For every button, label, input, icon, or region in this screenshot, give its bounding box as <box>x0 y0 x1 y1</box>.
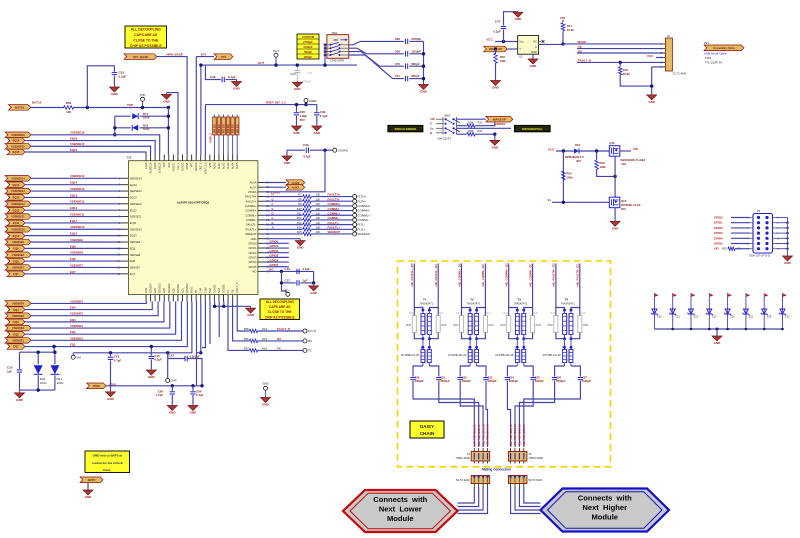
note ZZ1 assembly <box>704 41 744 64</box>
svg-text:GND: GND <box>16 398 24 402</box>
note: Connects with Next Lower Module <box>343 490 458 532</box>
net name VSENSE11 <box>70 212 85 216</box>
svg-text:GND: GND <box>247 313 255 317</box>
net name daisy J5 pin4 <box>522 424 526 447</box>
wire SW2 to WAKEUP <box>457 118 486 120</box>
transformer T2 764242471 <box>466 298 480 341</box>
svg-text:GND: GND <box>148 375 156 379</box>
svg-text:C21: C21 <box>440 375 445 379</box>
net name VSENSE8 <box>70 251 83 255</box>
net name GPIO3 <box>269 254 278 258</box>
svg-text:VSENSE7: VSENSE7 <box>70 263 83 267</box>
wire R25 to P1 <box>735 248 750 250</box>
wire daisy to J4 pin3 <box>460 381 483 447</box>
svg-text:C: C <box>430 122 432 126</box>
resistor R42 DNP <box>500 312 510 333</box>
net name EQ10 <box>70 232 78 236</box>
svg-text:AUX5: AUX5 <box>236 162 239 169</box>
transformer T4 764242471 <box>561 298 575 341</box>
svg-text:+HL_COMML-_DC: +HL_COMML-_DC <box>481 264 485 287</box>
svg-text:FLTL+: FLTL+ <box>358 227 367 231</box>
node VIO testpoint <box>284 288 290 296</box>
svg-text:EQ11: EQ11 <box>130 221 137 225</box>
wire clamp top rail <box>20 351 55 353</box>
svg-text:1µF: 1µF <box>303 279 308 283</box>
net label VSENSE16 <box>5 132 31 138</box>
wire cap gnd bus <box>423 41 425 84</box>
svg-text:10.0k: 10.0k <box>567 28 574 32</box>
wire GPIO1 <box>265 247 289 249</box>
svg-text:USB Serial Cable: USB Serial Cable <box>704 51 727 55</box>
svg-text:BAT16: BAT16 <box>32 101 42 105</box>
wire to R23 <box>596 151 598 160</box>
wire EQ8 <box>25 260 122 262</box>
capacitor C33 0.1uF <box>112 71 127 79</box>
junction <box>191 384 194 387</box>
node GND testpoint <box>262 382 268 398</box>
resistor R7 100 <box>298 193 320 199</box>
wire daisy to J5 pin2 <box>515 381 533 447</box>
transistor Q16 SI2319CDS-T1-GE3 -40V <box>609 141 645 166</box>
wire D18 cathode <box>115 127 131 129</box>
svg-text:Q19: Q19 <box>621 199 627 203</box>
svg-text:+HL_COMML+_DC: +HL_COMML+_DC <box>457 263 461 287</box>
resistor R43 DNP <box>531 312 542 333</box>
svg-text:VSENSE14: VSENSE14 <box>11 177 25 181</box>
svg-text:1000pF: 1000pF <box>509 379 519 383</box>
note: GND tied to BAT0 <box>85 451 130 473</box>
resistor R40 DNP <box>453 312 463 333</box>
svg-text:GND: GND <box>530 64 538 68</box>
net name daisy J5 pin1 <box>509 424 513 447</box>
wire FAULTH- left <box>265 200 303 202</box>
svg-text:C: C <box>272 216 274 220</box>
diode D20 100V <box>34 365 47 385</box>
resistor R23 100k <box>595 160 606 169</box>
svg-text:C20: C20 <box>415 375 420 379</box>
wire VSENSE8 <box>31 254 122 256</box>
svg-text:CHS-04TA: CHS-04TA <box>330 59 344 63</box>
svg-text:764242471: 764242471 <box>561 301 575 305</box>
svg-text:WAKE: WAKE <box>577 40 586 44</box>
capacitor C24 1000pF <box>505 375 519 383</box>
svg-text:NPN_BASE: NPN_BASE <box>167 53 183 57</box>
svg-text:GPIO0: GPIO0 <box>248 241 256 245</box>
svg-text:Z21: Z21 <box>676 315 681 318</box>
wire EQ4 <box>25 301 152 309</box>
wire dnp right bottom <box>571 333 580 339</box>
wire zener bus <box>654 328 782 330</box>
wire FAULTL- down <box>429 264 438 311</box>
wire C38 gnd stub <box>286 150 288 155</box>
svg-text:C71: C71 <box>395 74 401 78</box>
net label EQ10 <box>7 233 25 239</box>
wire daisy to J5 pin1 <box>507 381 510 447</box>
capacitor C41 4.7uF <box>108 355 122 363</box>
svg-text:VSENSE12: VSENSE12 <box>11 202 25 206</box>
svg-text:D19: D19 <box>575 143 581 147</box>
svg-text:R42: R42 <box>503 312 508 315</box>
net name EQ16 <box>70 136 78 140</box>
junction <box>323 63 326 66</box>
svg-text:AUX3: AUX3 <box>227 162 230 169</box>
resistor R17 10.0k <box>561 23 574 32</box>
resistor R15 100 <box>297 230 321 236</box>
ground SW2 <box>490 140 500 150</box>
net name VSENSE7 <box>70 263 83 267</box>
net label EQ9 <box>7 246 25 252</box>
svg-text:GND: GND <box>784 261 792 265</box>
net label VSENSE8 <box>5 252 31 258</box>
wire VIO stub <box>562 20 564 22</box>
junction <box>595 149 598 152</box>
svg-text:VSENSE1: VSENSE1 <box>12 339 25 343</box>
svg-text:R13: R13 <box>297 221 302 225</box>
svg-text:GND: GND <box>262 382 268 386</box>
wire dnp left top <box>555 308 557 316</box>
svg-text:NC: NC <box>533 40 537 44</box>
capacitor C38 4.7uF <box>303 143 311 159</box>
svg-text:F: F <box>272 202 274 206</box>
zener Z27 <box>779 293 790 329</box>
zener Z24 <box>724 293 735 329</box>
svg-text:WAKEUP: WAKEUP <box>328 230 341 234</box>
svg-text:SW1: SW1 <box>332 31 339 35</box>
capacitor C64 0.1uF <box>190 389 203 397</box>
svg-text:Vs: Vs <box>430 126 434 130</box>
svg-text:DNP: DNP <box>536 323 542 327</box>
svg-text:VDIG: VDIG <box>191 287 194 293</box>
wire dnp left bottom <box>462 333 471 339</box>
switch SW1 CHS-04TA <box>324 31 349 63</box>
net name Vs <box>547 198 551 202</box>
svg-text:C23: C23 <box>488 375 493 379</box>
junction <box>323 149 326 152</box>
wire TX from U1 <box>228 301 249 350</box>
svg-text:40V: 40V <box>576 159 581 163</box>
svg-text:RX: RX <box>308 339 312 343</box>
wire J6 pin3 to lower module <box>458 487 484 510</box>
net name FAULT_N <box>277 327 290 331</box>
svg-text:0.1µF: 0.1µF <box>119 75 127 79</box>
resistor R9 100 <box>298 202 320 208</box>
svg-text:EQ11: EQ11 <box>70 219 77 223</box>
ground C38 <box>282 155 292 165</box>
svg-text:C42: C42 <box>169 354 175 358</box>
wire EQ15 <box>25 152 146 155</box>
svg-text:CHM: CHM <box>204 288 207 293</box>
svg-text:COMML-: COMML- <box>246 218 257 222</box>
svg-text:EQ4: EQ4 <box>13 308 19 312</box>
pin letter A <box>272 226 274 230</box>
svg-text:AUX1: AUX1 <box>218 162 221 169</box>
net name COMMH+ <box>328 202 341 206</box>
svg-text:GPIO5: GPIO5 <box>269 263 278 267</box>
wire C39 to gnd <box>316 116 318 125</box>
svg-text:VIO: VIO <box>560 16 566 20</box>
wire dnp right top <box>484 308 486 316</box>
wire dnp right bottom <box>524 333 533 339</box>
resistor R14 100 <box>297 226 321 232</box>
wire TX to testpoint <box>258 349 303 351</box>
svg-text:R12: R12 <box>297 216 302 220</box>
wire EQ16 <box>25 141 155 155</box>
capacitor C60 1.8uF 25V <box>294 110 308 122</box>
junction <box>53 351 56 354</box>
svg-text:R7: R7 <box>298 193 302 197</box>
net name VSENSE15 <box>70 142 85 146</box>
svg-text:VSENSE2: VSENSE2 <box>70 324 83 328</box>
wire GPIO0 to P1 <box>731 217 750 219</box>
wire dnp left bottom <box>414 333 423 339</box>
svg-text:J4: J4 <box>467 452 470 456</box>
wire VSENSE15 <box>31 146 151 154</box>
wire clamp left vertical <box>114 116 116 135</box>
svg-text:-40V: -40V <box>621 162 627 166</box>
wire C42 right riser <box>187 359 202 386</box>
resistor R35 49.9 <box>244 327 268 333</box>
capacitor C22 1000pF <box>458 375 472 383</box>
wire FAULTL+ left <box>265 228 303 230</box>
wire GPIO3 to P1 <box>731 232 750 234</box>
svg-text:EQ9: EQ9 <box>130 246 136 250</box>
resistor R50 100 <box>64 101 74 114</box>
wire C56 gnd <box>171 395 173 404</box>
wire VP1 <box>196 56 214 58</box>
svg-text:560pF: 560pF <box>304 50 312 54</box>
junction <box>274 63 277 66</box>
wire GPIO2 to P1 <box>731 227 750 229</box>
node COMMH+ <box>353 204 371 208</box>
svg-text:GPIO2: GPIO2 <box>714 226 723 230</box>
resistor R8 100 <box>298 197 320 203</box>
wire to R21 <box>457 125 467 127</box>
svg-text:Mating Connectors: Mating Connectors <box>482 468 511 472</box>
wire J7 pin1 to higher module <box>511 487 541 514</box>
svg-text:FAULT_N: FAULT_N <box>277 327 290 331</box>
wire GPIO2 <box>265 252 289 254</box>
net name EQ2 <box>70 330 76 334</box>
ground AGND <box>162 93 172 104</box>
svg-text:GPIO3: GPIO3 <box>714 231 723 235</box>
wire to C60 <box>296 105 298 112</box>
svg-text:EQ10: EQ10 <box>130 234 137 238</box>
net name GPIO4 <box>269 258 278 262</box>
svg-text:SENSE2: SENSE2 <box>168 283 171 293</box>
wire COMML+ left <box>265 214 303 216</box>
wire VREF_INT_2.5 <box>205 102 306 105</box>
resistor R11 100 <box>297 211 320 217</box>
svg-text:0.1µF: 0.1µF <box>228 75 236 79</box>
wire COMML- right <box>311 219 353 221</box>
svg-text:AUX0..5: AUX0..5 <box>209 133 213 143</box>
net label VSENSE15 <box>5 143 31 149</box>
net name TX <box>277 347 281 351</box>
net label VSENSE10 <box>5 226 31 232</box>
op-amp U1 bq76PL455ATPFCRQ1 body <box>127 156 258 295</box>
svg-text:J5: J5 <box>528 452 531 456</box>
note DAISY CHAIN <box>410 421 444 438</box>
svg-text:4.7µF: 4.7µF <box>303 155 311 159</box>
svg-text:R21: R21 <box>478 121 483 125</box>
svg-text:SENSE3: SENSE3 <box>159 283 162 293</box>
svg-text:COMMH+: COMMH+ <box>245 204 257 208</box>
svg-text:EQ16: EQ16 <box>145 162 148 169</box>
capacitor C27 1000pF <box>578 375 592 383</box>
svg-text:1N5819HW-7-F: 1N5819HW-7-F <box>564 155 584 159</box>
wire FAULTH+ down <box>556 264 565 311</box>
svg-text:EQ10: EQ10 <box>13 234 20 238</box>
svg-text:GND: GND <box>310 291 318 295</box>
wire R19 to gnd bus <box>620 75 652 86</box>
node COMMH- <box>353 209 370 213</box>
wire GPIO0 <box>265 242 289 244</box>
net name GPIO1 P1 <box>714 221 723 225</box>
svg-text:Connects with: Connects with <box>373 495 427 504</box>
svg-text:+HL_TWI_DC4_M: +HL_TWI_DC4_M <box>486 424 490 447</box>
junction <box>167 115 170 118</box>
diode D19 1N5819HW-7-F 40V <box>564 143 584 163</box>
svg-text:GPIO3: GPIO3 <box>248 255 256 259</box>
svg-text:1000pF: 1000pF <box>462 379 472 383</box>
svg-text:VSENSE12: VSENSE12 <box>70 200 85 204</box>
net name VCC mux <box>548 147 555 151</box>
wire Vs to Q19 gate <box>552 201 609 203</box>
wire COMMH+ right <box>311 205 353 207</box>
wire EQ13 <box>25 196 122 198</box>
node FLTL- <box>353 223 365 227</box>
svg-text:VCC: VCC <box>486 38 493 42</box>
net label WAKEUP <box>484 46 508 52</box>
connector J4 70551-0038 <box>455 448 489 464</box>
resistor R45 DNP <box>578 312 589 333</box>
net label EQ13 <box>7 195 25 201</box>
wire to R18 <box>495 49 497 54</box>
svg-text:SENSE13: SENSE13 <box>130 189 142 193</box>
junction <box>304 103 307 106</box>
net label EQ1 <box>7 344 25 350</box>
svg-text:VSENSE13: VSENSE13 <box>70 187 85 191</box>
net name VCC <box>486 38 493 42</box>
net name GPIO4 P1 <box>714 236 723 240</box>
wire dnp left bottom <box>556 333 565 339</box>
wire J6 pin1 to lower module <box>458 487 475 503</box>
junction <box>280 281 283 284</box>
svg-text:EQ2: EQ2 <box>13 332 19 336</box>
zener Z25 <box>742 293 753 329</box>
wire riser to C33 <box>87 66 114 108</box>
svg-text:GND: GND <box>262 403 270 407</box>
wire VSENSE2 <box>31 301 170 328</box>
svg-text:260pF: 260pF <box>411 74 420 78</box>
svg-text:FLTH-: FLTH- <box>358 199 366 203</box>
net name GPIO2 P1 <box>714 226 723 230</box>
svg-text:ZZ1: ZZ1 <box>704 41 709 45</box>
wire J6 pin4 to lower module <box>458 487 488 514</box>
note: DIFFERENTIAL <box>515 125 551 131</box>
wire C71 to gnd bus <box>409 78 423 80</box>
capacitor C36 0.1uF <box>210 75 236 82</box>
svg-text:VSENSE16: VSENSE16 <box>70 131 85 135</box>
svg-text:Next Lower: Next Lower <box>379 505 422 514</box>
svg-text:GPIO1: GPIO1 <box>269 244 278 248</box>
svg-text:COMML+: COMML+ <box>245 213 257 217</box>
zener Z20 <box>651 293 662 329</box>
svg-text:100V: 100V <box>40 381 47 385</box>
wire TX <box>577 48 665 50</box>
net label VSENSE14 <box>5 176 31 182</box>
wire VSENSE7 <box>31 266 122 268</box>
svg-text:Q16: Q16 <box>609 141 615 145</box>
svg-text:25V: 25V <box>300 118 305 122</box>
svg-text:EQ10: EQ10 <box>70 232 78 236</box>
net label VSENSE9 <box>5 239 31 245</box>
net label VSENSE3 <box>5 313 31 319</box>
wire clamp bottom rail <box>20 389 55 391</box>
svg-text:Vs: Vs <box>547 198 551 202</box>
svg-text:RX: RX <box>277 337 281 341</box>
net label EQ7 <box>7 271 25 277</box>
capacitor C39 0.1uF <box>314 110 328 118</box>
net label EQ8 <box>7 258 25 264</box>
junction <box>200 384 203 387</box>
zener Z22 <box>688 293 699 329</box>
svg-text:E: E <box>272 207 274 211</box>
svg-text:R15: R15 <box>297 230 302 234</box>
junction <box>280 270 283 273</box>
net label EQ16 <box>7 138 25 144</box>
junction <box>493 133 496 136</box>
node FLTH+ <box>353 195 367 199</box>
svg-text:R40: R40 <box>456 312 461 315</box>
net label BAT0 <box>80 477 103 483</box>
ground cap bank <box>419 84 429 94</box>
net name FAULTL- <box>434 264 438 287</box>
junction <box>113 133 116 136</box>
svg-text:VIO: VIO <box>633 147 639 151</box>
svg-text:GND: GND <box>612 226 620 230</box>
net name EQ15 <box>70 148 78 152</box>
svg-text:GPIO1: GPIO1 <box>248 246 256 250</box>
junction <box>86 106 89 109</box>
svg-text:FAULT_N: FAULT_N <box>236 282 239 293</box>
svg-text:GND: GND <box>313 131 321 135</box>
svg-text:C22: C22 <box>462 375 467 379</box>
svg-text:VSENSE8: VSENSE8 <box>12 253 25 257</box>
wire daisy to J5 pin3 <box>519 381 554 447</box>
wire FAULTH- right <box>311 200 353 202</box>
svg-text:EQ15: EQ15 <box>70 148 78 152</box>
svg-text:VP2: VP2 <box>209 162 212 167</box>
svg-text:GND: GND <box>111 92 119 96</box>
capacitor C16 0.1uF <box>285 267 311 274</box>
resistor R12 100 <box>297 216 321 222</box>
svg-text:GND: GND <box>420 90 428 94</box>
svg-text:Module: Module <box>591 513 618 522</box>
svg-text:EQ7: EQ7 <box>70 270 76 274</box>
capacitor C70 560pF <box>395 62 420 69</box>
wire C41 gnd <box>110 360 112 391</box>
svg-text:VWAKE: VWAKE <box>495 122 506 126</box>
pin letter D <box>272 211 274 215</box>
svg-text:VSENSE4: VSENSE4 <box>70 299 83 303</box>
net name VIO <box>269 268 275 272</box>
svg-text:100V: 100V <box>57 381 64 385</box>
svg-text:FAULTH+: FAULTH+ <box>245 195 257 199</box>
wire Q19 source to gnd <box>614 208 616 221</box>
svg-text:GPIO1: GPIO1 <box>714 221 723 225</box>
junction <box>562 149 565 152</box>
